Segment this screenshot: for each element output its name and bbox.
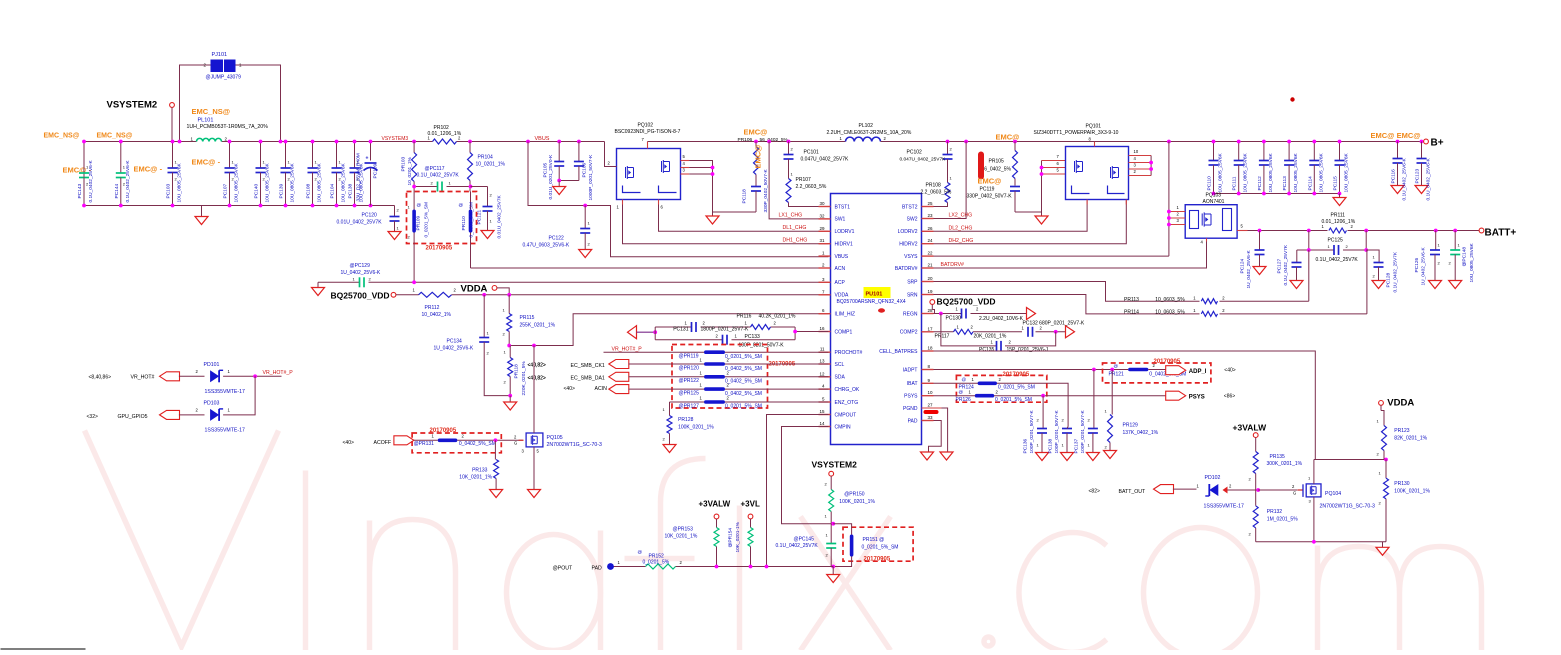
svg-text:10U_0805_25V6K: 10U_0805_25V6K — [1293, 152, 1299, 192]
resistor PR119 — [704, 350, 725, 354]
svg-text:2N7002WT1G_SC-70-3: 2N7002WT1G_SC-70-3 — [1320, 504, 1375, 510]
wire PQ102 right pins to ground rail — [689, 161, 712, 213]
wire BATT+ lower branch — [1308, 231, 1310, 251]
wire PQ104 source — [1313, 497, 1315, 542]
svg-text:22: 22 — [928, 251, 934, 256]
wire PD102 to gate node — [1228, 489, 1259, 491]
svg-text:+3VALW: +3VALW — [699, 500, 731, 509]
svg-text:PC106: PC106 — [582, 163, 588, 178]
pin PQ101 pin8 top — [1094, 142, 1096, 147]
open arrow COMP1 left — [628, 326, 637, 339]
pin PQ102 pin1 — [622, 200, 624, 205]
svg-text:PC121: PC121 — [477, 210, 483, 225]
wire VR_HOT# to PD101 — [179, 375, 205, 377]
svg-text:56_0402_5%: 56_0402_5% — [982, 167, 1012, 173]
svg-text:EMC@: EMC@ — [754, 145, 763, 169]
resistor PR150 — [829, 490, 834, 512]
pin 31 HIDRV1 — [819, 243, 831, 245]
wire CELL_BATPRES — [934, 351, 1316, 460]
wire drain node row — [1314, 459, 1386, 461]
wire ILIM_HIZ node — [509, 314, 828, 346]
svg-text:PR103: PR103 — [401, 157, 407, 172]
svg-text:10U_0805_25V6K: 10U_0805_25V6K — [1243, 152, 1249, 192]
svg-text:255K_0201_1%: 255K_0201_1% — [520, 323, 556, 329]
svg-text:<86>: <86> — [1224, 394, 1235, 400]
pin 18 CELL_BATPRES — [922, 350, 934, 352]
svg-text:PU101: PU101 — [866, 292, 883, 298]
svg-text:PC127: PC127 — [1277, 259, 1283, 274]
capacitor PC112 — [1263, 142, 1265, 161]
wire SW1 — [769, 142, 828, 219]
pin 10 PSYS — [922, 395, 934, 397]
ground PQ104 bus — [1382, 542, 1384, 548]
wire COMP1 top branch — [655, 326, 691, 328]
svg-text:18: 18 — [928, 346, 934, 351]
resistor PR127 — [704, 400, 725, 404]
svg-text:VBUS: VBUS — [835, 254, 849, 260]
port ADP_I — [1166, 366, 1186, 375]
resistor PR113 — [1200, 297, 1220, 307]
connector PJ101 — [211, 60, 224, 73]
svg-text:PR114: PR114 — [1124, 310, 1139, 316]
resistor PR110 — [470, 192, 472, 210]
pin PQ103 pin4 — [1206, 238, 1208, 241]
svg-text:25: 25 — [928, 201, 934, 206]
pin 21 BATDRV# — [922, 267, 934, 269]
resistor PR117 — [954, 329, 974, 334]
svg-text:1U_0402_25V6-K: 1U_0402_25V6-K — [1421, 247, 1427, 286]
pins PQ101 bottom stubs — [1086, 200, 1088, 205]
node VBUS drop — [526, 140, 530, 144]
capacitor PC105 — [557, 140, 561, 144]
svg-text:G: G — [1293, 491, 1296, 496]
wire IADPT — [934, 369, 1129, 371]
resistor PR130 — [1385, 460, 1387, 479]
IC U PU101 BQ25700 — [831, 194, 922, 445]
svg-text:PC137: PC137 — [1074, 439, 1080, 454]
svg-text:@PC117: @PC117 — [425, 166, 445, 172]
port PSYS — [1166, 391, 1186, 400]
svg-text:PC136: PC136 — [1023, 439, 1029, 454]
svg-text:10U_0805_25V6K: 10U_0805_25V6K — [341, 162, 347, 202]
node SW1 drop — [767, 140, 771, 144]
svg-text:BTST1: BTST1 — [835, 204, 851, 210]
svg-text:@: @ — [638, 550, 643, 555]
pins PQ101 right — [1129, 155, 1152, 157]
svg-text:@PC129: @PC129 — [350, 263, 371, 269]
svg-text:20170905: 20170905 — [864, 557, 891, 563]
resistor PR129 — [1111, 370, 1113, 415]
svg-text:PROCHOT#: PROCHOT# — [835, 350, 863, 356]
svg-text:137K_0402_1%: 137K_0402_1% — [1123, 430, 1159, 436]
svg-text:LODRV2: LODRV2 — [898, 229, 918, 235]
svg-text:0_0201_5%: 0_0201_5% — [643, 560, 670, 566]
svg-text:PR133: PR133 — [472, 468, 488, 474]
resistor PR121 — [1128, 368, 1148, 372]
svg-text:330P_0402_50V7-K: 330P_0402_50V7-K — [967, 194, 1013, 200]
svg-text:13: 13 — [819, 359, 825, 364]
capacitor PC122 — [584, 206, 586, 229]
svg-text:0.1U_0402_25V7K: 0.1U_0402_25V7K — [776, 543, 819, 549]
wire PJ101 left leg — [180, 65, 211, 142]
svg-text:0_0402_5%_SM: 0_0402_5%_SM — [459, 441, 496, 447]
ground PQ102 — [712, 212, 714, 216]
capacitor PC126 — [1434, 229, 1438, 233]
svg-text:20170905: 20170905 — [1154, 359, 1181, 365]
svg-text:VSYSTEM2: VSYSTEM2 — [107, 100, 158, 111]
node PC136 drop — [1041, 394, 1045, 398]
svg-text:10U_0805_25V6K: 10U_0805_25V6K — [1268, 152, 1274, 192]
svg-text:0.047U_0402_25V7K: 0.047U_0402_25V7K — [900, 157, 947, 163]
svg-text:PR115: PR115 — [520, 315, 535, 321]
wire SDA row — [629, 376, 705, 378]
capacitor PC121 — [487, 187, 489, 207]
node PR133 top — [494, 438, 498, 442]
svg-text:PC103: PC103 — [166, 184, 172, 199]
terminal B+ — [1424, 139, 1429, 144]
capacitor PC138 — [354, 142, 356, 169]
pin 14 CMPIN — [819, 426, 831, 428]
svg-text:40.2K_0201_1%: 40.2K_0201_1% — [759, 314, 797, 320]
svg-text:PC118: PC118 — [742, 189, 748, 204]
capacitor PC144 — [120, 142, 122, 174]
wire VDDA rail — [396, 294, 419, 296]
wire PD103 join — [223, 376, 255, 415]
svg-text:10U_0805_25V6K: 10U_0805_25V6K — [290, 162, 296, 202]
svg-text:PC110: PC110 — [1207, 176, 1213, 191]
svg-text:20170905: 20170905 — [1003, 372, 1030, 378]
svg-text:@PR153: @PR153 — [673, 527, 694, 533]
pins PQ102 right 5 4 3 — [681, 160, 690, 162]
wire VBUS into PQ102 pin2 — [605, 142, 617, 167]
watermark Vinafix.com — [85, 431, 1482, 655]
svg-text:EC_SMB_CK1: EC_SMB_CK1 — [571, 363, 605, 369]
svg-text:SCL: SCL — [835, 362, 845, 368]
svg-text:10U_0805_25V6K: 10U_0805_25V6K — [1218, 152, 1224, 192]
svg-text:100P_0201_50V7-K: 100P_0201_50V7-K — [1080, 409, 1086, 453]
svg-text:10_0201_1%: 10_0201_1% — [476, 162, 506, 168]
svg-text:PSYS: PSYS — [904, 394, 918, 400]
pin 3 ACP — [819, 281, 831, 283]
svg-text:PR151 @: PR151 @ — [863, 537, 885, 543]
svg-text:@: @ — [1114, 364, 1119, 369]
svg-text:56_0402_5%: 56_0402_5% — [760, 137, 789, 143]
svg-text:BATDRV#: BATDRV# — [941, 262, 965, 268]
wire PQ102 pin6 to LODRV1 — [659, 205, 829, 232]
node PR129 drop — [1110, 368, 1114, 372]
svg-text:PR107: PR107 — [796, 177, 812, 183]
pin 26 LODRV2 — [922, 230, 934, 232]
svg-text:1SS355VMTE-17: 1SS355VMTE-17 — [205, 389, 245, 395]
node PQ105 drain branch — [532, 344, 536, 348]
wire gate node to PQ104 — [1258, 489, 1297, 491]
svg-text:ACIN: ACIN — [595, 386, 608, 392]
svg-text:PR112: PR112 — [425, 305, 440, 311]
svg-text:0_0402_5%_SM: 0_0402_5%_SM — [725, 391, 762, 397]
svg-text:PC131: PC131 — [673, 327, 689, 333]
resistor PR125 — [704, 387, 725, 391]
svg-text:VR_HOT#: VR_HOT# — [131, 375, 155, 381]
svg-text:30: 30 — [819, 201, 825, 206]
node PC134 top — [482, 293, 486, 297]
svg-text:10K_0201_1%: 10K_0201_1% — [459, 475, 492, 481]
svg-text:PL102: PL102 — [859, 123, 874, 129]
svg-text:PR104: PR104 — [478, 155, 494, 161]
svg-text:PC134: PC134 — [447, 339, 463, 345]
resistor PR112 — [419, 292, 452, 297]
svg-text:PC107: PC107 — [223, 184, 229, 199]
resistor PR132 — [1255, 490, 1257, 506]
ground PR128 — [663, 445, 676, 453]
svg-text:10_0201_1%: 10_0201_1% — [407, 156, 413, 185]
svg-text:0_0402_5%_SM: 0_0402_5%_SM — [725, 379, 762, 385]
svg-text:2.2_0603_5%: 2.2_0603_5% — [921, 190, 952, 196]
svg-text:+3VL: +3VL — [741, 500, 760, 509]
svg-text:PD102: PD102 — [1205, 475, 1221, 481]
wire left bus left riser — [83, 142, 85, 206]
svg-text:SDA: SDA — [835, 375, 846, 381]
svg-text:ACP: ACP — [835, 280, 846, 286]
wire SRN — [934, 295, 1367, 314]
resistor PR103 — [413, 142, 415, 153]
svg-text:BQ25700ARSNR_QFN32_4X4: BQ25700ARSNR_QFN32_4X4 — [837, 299, 906, 305]
wire DH2 to PQ101 — [934, 200, 1127, 243]
svg-text:2N7002WT1G_SC-70-3: 2N7002WT1G_SC-70-3 — [547, 442, 602, 448]
wire BATT_OUT to PD102 — [1173, 488, 1197, 490]
wire main rail VSYSTEM2 left — [84, 141, 197, 143]
wire PC135 loop — [941, 314, 997, 346]
node PJ101 left on rail — [178, 140, 182, 144]
svg-text:PR116: PR116 — [737, 314, 752, 320]
svg-text:PC144: PC144 — [114, 184, 120, 199]
svg-text:PC130: PC130 — [946, 316, 962, 322]
svg-text:@PR131: @PR131 — [414, 441, 435, 447]
terminal BATT+ — [1479, 228, 1484, 233]
wire PQ104 drain — [1313, 460, 1315, 484]
svg-text:BATDRV#: BATDRV# — [895, 266, 918, 272]
capacitor PC118 — [751, 186, 761, 188]
wire ACOFF to PR131 — [414, 439, 438, 441]
capacitor PC116 — [1396, 140, 1400, 144]
capacitor PC104 — [336, 142, 338, 169]
resistor PR107 — [786, 179, 791, 203]
svg-text:PL101: PL101 — [198, 118, 214, 124]
svg-text:CMPOUT: CMPOUT — [835, 412, 857, 418]
svg-text:0.1U_0402_25V7K: 0.1U_0402_25V7K — [417, 173, 460, 179]
wire COMP1 loop right riser — [795, 327, 828, 332]
capacitor PC134 — [483, 295, 485, 338]
svg-text:0.1U_0402_25V7K: 0.1U_0402_25V7K — [1316, 257, 1359, 263]
svg-text:10: 10 — [928, 390, 934, 395]
wire IBAT — [934, 383, 1069, 426]
resistor PR120 — [704, 362, 725, 366]
pins PQ103 left 1 2 3 — [1169, 211, 1185, 213]
svg-text:PC138: PC138 — [1048, 439, 1054, 454]
wire left bottom bus — [84, 205, 395, 207]
pin 28 REGN — [922, 313, 934, 315]
svg-text:21: 21 — [928, 263, 934, 268]
svg-text:0.01U_0402_25V7K: 0.01U_0402_25V7K — [497, 194, 503, 238]
svg-text:+3VALW: +3VALW — [1233, 423, 1268, 433]
capacitor PC138 — [1062, 428, 1072, 430]
svg-text:0_0402_5%_SM: 0_0402_5%_SM — [725, 366, 762, 372]
resistor PR123 — [1382, 426, 1387, 451]
capacitor PC137 — [1093, 370, 1095, 429]
svg-text:330P_0402_50V7-K: 330P_0402_50V7-K — [763, 168, 769, 212]
svg-text:0_0201_5%_SM: 0_0201_5%_SM — [998, 385, 1035, 391]
dashed box PR131 — [412, 433, 501, 453]
resistor PR105 — [1014, 142, 1016, 151]
wire PQ101 right pins junction — [1150, 156, 1152, 176]
svg-text:PC132 680P_0201_25V7-K: PC132 680P_0201_25V7-K — [1023, 321, 1085, 327]
resistor PR111 — [1328, 226, 1348, 236]
svg-text:BSC0923NDI_PG-TISON-8-7: BSC0923NDI_PG-TISON-8-7 — [615, 129, 681, 135]
ground PQ105 — [528, 490, 541, 498]
svg-text:<40,82>: <40,82> — [528, 363, 546, 369]
pin 22 VSYS — [922, 255, 934, 257]
capacitor PC114 — [1313, 142, 1315, 161]
svg-text:<40>: <40> — [1224, 368, 1235, 374]
wire SRP — [934, 282, 1309, 302]
capacitor PC124 — [1258, 229, 1262, 233]
svg-text:0.01U_0201_25V0-K: 0.01U_0201_25V0-K — [548, 154, 554, 200]
svg-text:PC101: PC101 — [804, 150, 820, 156]
svg-text:PC124: PC124 — [1240, 259, 1246, 274]
svg-text:16: 16 — [819, 326, 825, 331]
svg-text:20: 20 — [928, 276, 934, 281]
resistor PR116 — [751, 325, 771, 330]
svg-text:LX1_CHG: LX1_CHG — [779, 213, 803, 219]
svg-text:0.1U_0402_25V6-K: 0.1U_0402_25V6-K — [1426, 158, 1432, 201]
svg-text:PR113: PR113 — [1124, 297, 1139, 303]
svg-text:100K_0201_1%: 100K_0201_1% — [1394, 489, 1430, 495]
dashed box PR109 PR110 20170905 — [407, 192, 477, 244]
pin 8 IADPT — [922, 369, 934, 371]
svg-text:PR111: PR111 — [1331, 213, 1346, 219]
svg-text:220K_0201_5%: 220K_0201_5% — [521, 361, 527, 396]
ground PR133 — [490, 490, 503, 498]
resistor PR115 — [508, 295, 510, 314]
capacitor PC125 — [1333, 245, 1335, 255]
wire ACP line with PC129 — [318, 281, 360, 283]
svg-text:1000P_0201_50V7-K: 1000P_0201_50V7-K — [588, 154, 594, 201]
node PR115 top — [507, 293, 511, 297]
svg-text:0_0201_5%_SM: 0_0201_5%_SM — [995, 397, 1032, 403]
svg-text:1M_0201_5%: 1M_0201_5% — [1267, 517, 1298, 523]
svg-text:REGN: REGN — [903, 311, 918, 317]
pin 32 SW1 — [819, 218, 831, 220]
svg-text:0.047U_0402_25V7K: 0.047U_0402_25V7K — [801, 157, 849, 163]
svg-text:PC112: PC112 — [1257, 176, 1263, 191]
svg-text:PC115: PC115 — [1333, 176, 1339, 191]
svg-text:PAD: PAD — [592, 566, 603, 572]
node PR105 top — [1013, 140, 1017, 144]
svg-text:PC114: PC114 — [1307, 176, 1313, 191]
pin 1 VBUS — [819, 255, 831, 257]
svg-text:@PR122: @PR122 — [679, 378, 700, 384]
resistor PR154 — [748, 528, 753, 547]
svg-text:PC116: PC116 — [1391, 169, 1397, 184]
svg-text:24: 24 — [928, 238, 934, 243]
wire ENZ_OTG row — [670, 401, 705, 403]
ground PR118 — [509, 396, 511, 402]
svg-text:27: 27 — [928, 403, 934, 408]
open arrow COMP2 — [1066, 326, 1075, 338]
pin 29 LODRV1 — [819, 230, 831, 232]
svg-text:15: 15 — [819, 409, 825, 414]
wire rail PQ101 to B+ — [1095, 141, 1424, 143]
pin 13 SCL — [819, 363, 831, 365]
svg-text:14: 14 — [819, 421, 825, 426]
pin PQ102 pin6 — [658, 200, 660, 205]
svg-text:10K_0201_1%: 10K_0201_1% — [665, 534, 698, 540]
capacitor PC143 — [83, 142, 85, 174]
wire PAD to ground — [929, 421, 942, 452]
resistor PR102 — [433, 139, 457, 144]
svg-text:ACN: ACN — [835, 266, 846, 272]
svg-text:0.1U_0402_25V6-K: 0.1U_0402_25V6-K — [1402, 158, 1408, 201]
svg-text:10U_0805_25V6K: 10U_0805_25V6K — [1318, 152, 1324, 192]
wire CMPIN — [782, 427, 834, 524]
svg-text:PC113: PC113 — [1282, 176, 1288, 191]
svg-text:10: 10 — [1134, 149, 1139, 154]
svg-text:EMC@ EMC@: EMC@ EMC@ — [1371, 131, 1421, 140]
capacitor PC131 — [691, 322, 693, 332]
svg-text:0_0201_5%_SM: 0_0201_5%_SM — [725, 404, 762, 410]
svg-text:G: G — [514, 441, 517, 446]
pin 2 ACN — [819, 267, 831, 269]
pin 4 CHRG_OK — [819, 388, 831, 390]
wire DL2 to PQ101 — [934, 200, 1088, 231]
pin 23 SW2 — [922, 218, 934, 220]
wire SCL row — [629, 363, 705, 365]
svg-text:1800P_0201_25V7-K: 1800P_0201_25V7-K — [701, 327, 749, 333]
svg-text:HIDRV1: HIDRV1 — [835, 242, 853, 248]
svg-text:29: 29 — [819, 226, 825, 231]
svg-text:VSYS: VSYS — [904, 254, 918, 260]
ground left bus — [201, 206, 203, 217]
resistor PR108 — [945, 183, 950, 203]
capacitor PC107 — [229, 142, 231, 169]
wire COMP1 bottom branch — [655, 339, 722, 341]
svg-text:32: 32 — [819, 213, 825, 218]
svg-text:PR106: PR106 — [738, 137, 753, 143]
svg-text:PQ102: PQ102 — [638, 123, 654, 129]
svg-text:0.1U_0402_25V6-K: 0.1U_0402_25V6-K — [125, 160, 131, 203]
node PC122 top — [583, 204, 587, 208]
wire PQ105 drain to ILIM node — [533, 346, 535, 434]
svg-text:VR_HOT#_P: VR_HOT#_P — [612, 347, 643, 353]
pin 5 ENZ_OTG — [819, 401, 831, 403]
svg-text:VR_HOT#_P: VR_HOT#_P — [263, 370, 294, 376]
svg-text:VSYSTEM3: VSYSTEM3 — [382, 136, 409, 142]
capacitor PC120 — [394, 206, 396, 217]
capacitor PC123 — [1420, 140, 1424, 144]
svg-text:PR105: PR105 — [989, 159, 1005, 165]
wire right bank bottom bus — [1214, 193, 1340, 195]
svg-text:PR129: PR129 — [1123, 423, 1139, 429]
svg-text:33U_D2_25VM_R40M: 33U_D2_25VM_R40M — [356, 153, 362, 201]
node PR118 bottom — [508, 394, 512, 398]
svg-text:PAD: PAD — [908, 418, 918, 424]
svg-text:BATT_OUT: BATT_OUT — [1119, 489, 1147, 495]
svg-text:DH1_CHG: DH1_CHG — [783, 238, 808, 244]
svg-text:SIZ340DTT1_POWERPAIR_3X3-9-10: SIZ340DTT1_POWERPAIR_3X3-9-10 — [1034, 130, 1119, 136]
svg-text:@: @ — [962, 377, 967, 382]
node SW2 drop — [964, 140, 968, 144]
resistor PR151 — [833, 524, 851, 535]
svg-text:@: @ — [459, 203, 464, 208]
